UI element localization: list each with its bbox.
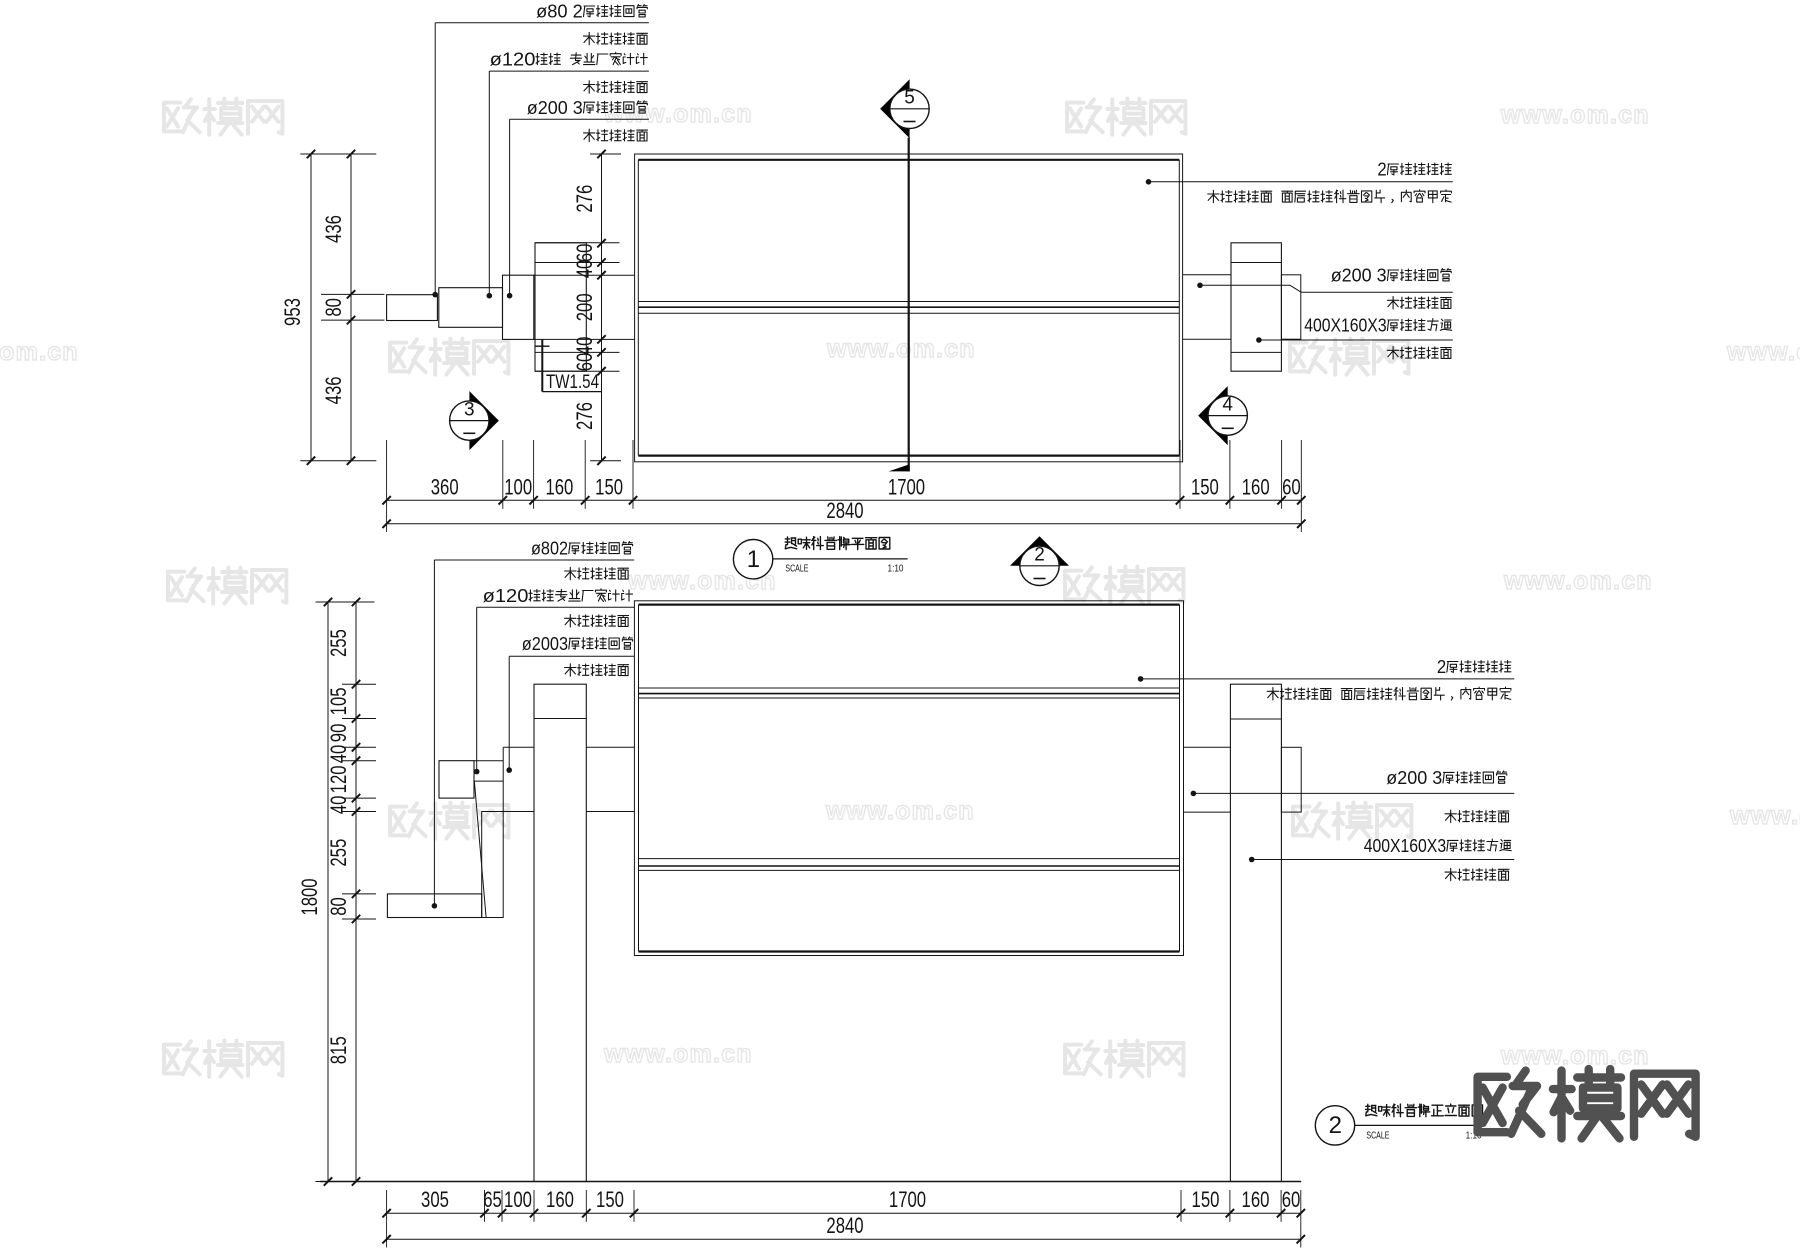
elevation support diagonal [474,780,486,917]
svg-text:255: 255 [326,629,351,657]
svg-text:150: 150 [595,474,623,499]
watermark [164,1041,282,1077]
svg-text:305: 305 [421,1187,449,1212]
svg-text:www.om.cn: www.om.cn [1503,567,1653,595]
svg-text:160: 160 [1242,1187,1270,1212]
plan: piece B (ø120 shaft housing) [439,288,503,328]
svg-text:953: 953 [280,298,305,326]
watermark [390,339,508,375]
elevation bracket vertical strip [482,812,504,918]
plan annotation 木纹漆饰面 2 [584,81,648,93]
svg-text:3: 3 [464,399,475,420]
plan annotation 木纹漆饰面 r2 [1387,347,1451,359]
svg-text:SCALE: SCALE [785,562,808,574]
svg-text:150: 150 [1191,474,1219,499]
svg-text:www.om.cn: www.om.cn [1729,802,1800,830]
elev leader verticals [433,560,435,906]
svg-text:ø80 2: ø80 2 [536,2,583,23]
elevation dims 1800 + segments [327,602,329,1182]
plan overall 2840 [387,523,1302,525]
elevation: sign board [634,601,1183,956]
svg-text:80: 80 [321,298,346,317]
svg-text:40: 40 [326,796,351,815]
svg-text:150: 150 [1192,1187,1220,1212]
elevation ground line [320,1181,1301,1183]
plan bottom dim chain [387,499,1302,501]
watermark [1067,99,1185,135]
elevation overall 2840 [387,1238,1301,1240]
plan board mid lines [638,301,1179,303]
elevation board lower rail lines [639,858,1180,860]
plan annotation 木纹漆饰面+科普图片 [1208,190,1452,203]
svg-text:60: 60 [1282,1187,1301,1212]
svg-text:436: 436 [321,376,346,404]
section marker 3 [469,391,498,450]
plan: right post section [1231,243,1281,371]
svg-text:400X160X3: 400X160X3 [1364,836,1446,857]
svg-text:ø120: ø120 [490,50,536,71]
elevation left post [534,684,586,1181]
view marker 2 (up) [1010,536,1069,566]
plan: right stub (square tube end) [1281,275,1300,339]
svg-text:276: 276 [572,402,597,430]
svg-text:2: 2 [1377,160,1386,181]
svg-text:ø2003: ø2003 [522,634,568,655]
svg-text:www.om.cn: www.om.cn [825,797,975,825]
svg-text:TW1.54: TW1.54 [546,372,599,393]
elev annotation 木纹漆饰面 3 [565,664,629,676]
elevation right stub [1281,747,1301,812]
logo 欧模网 [1478,1069,1696,1138]
plan mid dim chain 276/60/40/200/40/60/276 [601,154,603,461]
svg-text:160: 160 [546,1187,574,1212]
svg-text:60: 60 [1282,474,1301,499]
svg-text:40: 40 [572,260,597,279]
elev annotation 木纹漆饰面 r1 [1445,810,1509,822]
elevation bottom dim chain [387,1212,1301,1214]
elevation right arm [1184,746,1231,748]
plan annotation 木纹漆饰面 r1 [1387,297,1451,309]
svg-text:www.om.cn: www.om.cn [826,335,976,363]
svg-text:2: 2 [1329,1112,1342,1139]
svg-text:60: 60 [572,353,597,372]
svg-text:www.om.cn: www.om.cn [1500,101,1650,129]
elev annotation 木纹漆饰面 2 [565,615,629,627]
plan: left post section (400x160 tube) [535,243,586,371]
svg-text:ø200 3: ø200 3 [1331,266,1387,287]
title 1: plan [733,540,772,579]
svg-text:ø120: ø120 [483,586,529,607]
plan: right arm board-to-post [1183,274,1231,276]
plan: arm lines left (C to board) [534,274,635,276]
svg-text:815: 815 [326,1036,351,1064]
svg-text:www.om.cn: www.om.cn [1726,338,1800,366]
svg-text:200: 200 [572,293,597,321]
plan: section cut line 5-5 [908,138,910,472]
svg-text:40: 40 [572,337,597,356]
elevation board upper rail lines [639,687,1180,689]
elevation right post [1230,684,1281,1181]
svg-text:www.om.cn: www.om.cn [603,100,753,128]
svg-text:ø200 3: ø200 3 [527,98,583,119]
svg-text:ø802: ø802 [531,539,568,560]
watermark [168,568,286,604]
svg-text:160: 160 [545,474,573,499]
svg-text:100: 100 [504,1187,532,1212]
svg-text:60: 60 [572,244,597,263]
plan leader lines top-left [434,23,436,295]
svg-text:4: 4 [1222,394,1233,415]
svg-text:100: 100 [504,474,532,499]
svg-text:40: 40 [326,745,351,764]
svg-text:www.om.cn: www.om.cn [0,338,79,366]
svg-text:2840: 2840 [826,498,863,523]
svg-text:1800: 1800 [297,878,322,915]
elevation left arm (ø200 tube) [503,746,534,748]
plan: TW1.54 level mark [541,339,543,391]
svg-text:90: 90 [326,724,351,743]
elev annotation 木纹漆饰面 1 [565,567,629,579]
plan view: sign board (top) [635,154,1183,462]
plan left dims 953 / 436-80-436 [310,154,312,461]
plan annotation 木纹漆饰面 3 [584,129,648,141]
title 2: elevation [1315,1106,1354,1145]
svg-text:5: 5 [904,88,915,109]
svg-text:105: 105 [326,687,351,715]
svg-text:255: 255 [326,839,351,867]
svg-text:ø200 3: ø200 3 [1386,768,1442,789]
plan annotation 木纹漆饰面 1 [584,32,648,44]
watermark [1290,339,1408,375]
elev annotation 木纹漆饰面 r2 [1445,868,1509,880]
svg-text:2: 2 [1437,657,1446,678]
svg-text:www.om.cn: www.om.cn [603,1040,753,1068]
section marker 5 [880,79,909,138]
elevation ø120 shaft housing [439,761,474,798]
svg-text:1: 1 [747,546,760,573]
watermark [390,803,508,839]
svg-text:276: 276 [572,185,597,213]
elev annotation 木纹漆饰面+科普图片 [1267,687,1511,700]
svg-text:1700: 1700 [888,474,925,499]
svg-text:2840: 2840 [826,1213,863,1238]
svg-text:www.om.cn: www.om.cn [1500,1042,1650,1070]
svg-text:360: 360 [431,474,459,499]
watermark [1065,567,1183,603]
svg-text:80: 80 [326,897,351,916]
svg-text:150: 150 [596,1187,624,1212]
watermark [1293,803,1411,839]
watermark [1065,1041,1183,1077]
svg-text:1:10: 1:10 [888,562,904,574]
plan: left post cap lines + extensions [535,242,620,244]
watermark [164,99,282,135]
svg-text:400X160X3: 400X160X3 [1304,316,1386,337]
svg-text:436: 436 [321,215,346,243]
svg-text:65: 65 [483,1187,502,1212]
svg-text:1700: 1700 [889,1187,926,1212]
plan: piece A (ø80 pipe end) [387,295,438,321]
svg-text:SCALE: SCALE [1366,1129,1389,1141]
section marker 4 [1198,386,1228,445]
svg-text:160: 160 [1242,474,1270,499]
svg-text:120: 120 [326,765,351,793]
plan: piece C (ø200 pipe) [503,275,534,339]
svg-text:2: 2 [1034,545,1045,566]
elevation handle bracket [387,894,481,918]
